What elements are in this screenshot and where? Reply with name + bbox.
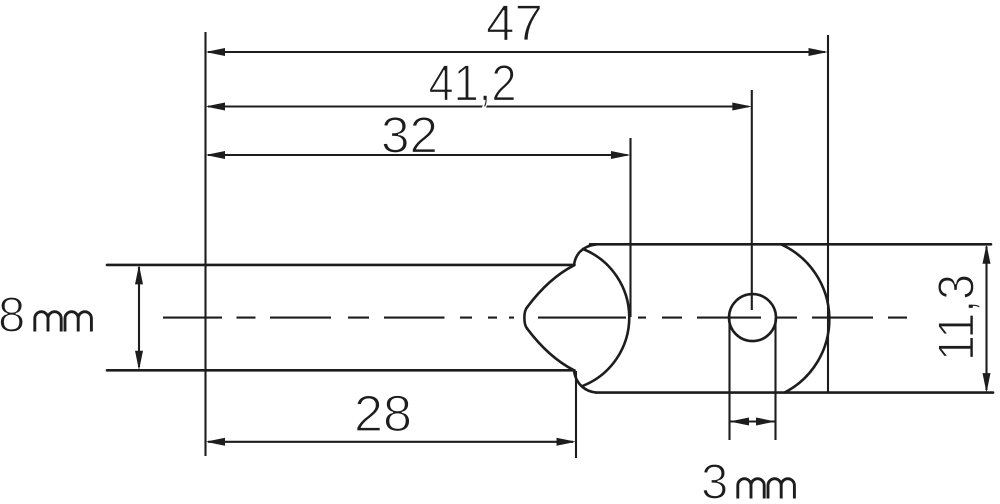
dome upper flank (527, 265, 574, 307)
svg-text:11,3: 11,3 (928, 274, 985, 361)
arrow 28 left (206, 438, 226, 446)
3mm dimension line (730, 420, 776, 422)
arrow 32 right (611, 151, 631, 159)
47 right extension line (827, 35, 829, 392)
32 dimension line (208, 154, 628, 156)
arrow 11.3 up (983, 244, 991, 263)
arrow 28 right (557, 438, 577, 446)
41.2 dimension line (208, 105, 749, 107)
svg-text:3: 3 (701, 456, 728, 504)
tube top line (107, 264, 575, 267)
tube bottom line (107, 369, 575, 372)
3mm right extension line (774, 318, 776, 440)
arrow 8mm up (135, 265, 143, 285)
arrow 32 left (206, 151, 226, 159)
glass dome right arc (583, 249, 629, 386)
hole circle (729, 294, 776, 341)
3mm left extension line (728, 318, 730, 440)
svg-text:41,2: 41,2 (429, 55, 517, 112)
cap bottom-left corner (574, 370, 596, 392)
dome lower flank (527, 329, 574, 371)
32 right extension line (629, 138, 631, 317)
centerline (163, 317, 907, 319)
arrow 3mm right (756, 418, 776, 426)
svg-text:32: 32 (381, 107, 438, 164)
cap top edge with 11.3 extension (590, 243, 991, 246)
label 11,3 (928, 274, 985, 361)
dome apex (524, 307, 527, 329)
11.3 dimension line (985, 247, 987, 391)
arrow 11.3 down (983, 373, 991, 393)
arrow 47 right (809, 48, 829, 56)
arrow 47 left (206, 48, 226, 56)
arrow 8mm down (135, 351, 143, 371)
arrow 41.2 right (732, 103, 752, 111)
28 right extension line (575, 371, 577, 458)
cap top-left corner (574, 244, 596, 265)
svg-text:8: 8 (0, 289, 25, 343)
8mm dimension line (138, 267, 140, 367)
arrow 3mm left (730, 418, 750, 426)
47 dimension line (208, 51, 825, 53)
cap right end arc (781, 244, 829, 392)
svg-text:47: 47 (486, 0, 543, 52)
svg-text:28: 28 (354, 385, 412, 442)
28 dimension line (208, 441, 573, 443)
left extension line (204, 32, 206, 456)
arrow 41.2 left (206, 103, 226, 111)
cap bottom edge with 11.3 extension (596, 391, 993, 394)
41.2 right extension line (751, 90, 753, 310)
